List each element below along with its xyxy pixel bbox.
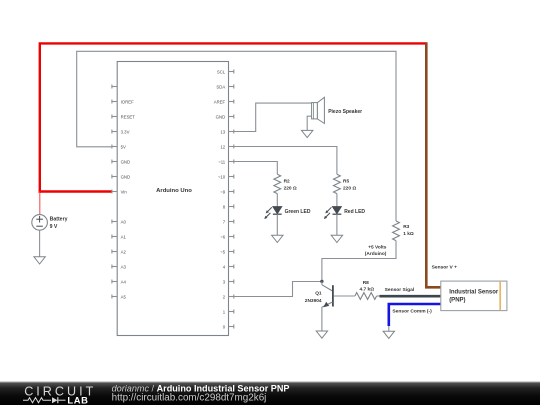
wire brown Sensor V+ bbox=[426, 42, 441, 287]
ground red LED bbox=[331, 235, 342, 242]
pin GND (left) bbox=[112, 161, 118, 163]
pin GND (left) bbox=[112, 176, 118, 178]
svg-text:Sensor Comm (-): Sensor Comm (-) bbox=[392, 309, 432, 315]
svg-text:R3: R3 bbox=[403, 224, 409, 230]
pin 7 (right) bbox=[229, 221, 235, 223]
pin A0 (left) bbox=[112, 221, 118, 223]
svg-text:5V: 5V bbox=[121, 144, 126, 149]
svg-text:Vin: Vin bbox=[121, 189, 128, 194]
wire R8 right lead bbox=[377, 295, 380, 297]
svg-text:GND: GND bbox=[121, 159, 131, 164]
pin ~11 (right) bbox=[229, 161, 235, 163]
svg-text:A4: A4 bbox=[121, 279, 127, 284]
pin A2 (left) bbox=[112, 251, 118, 253]
pin 5V (left) bbox=[112, 146, 118, 148]
wire pin 12 to R5 bbox=[234, 147, 337, 175]
node junction dot bbox=[320, 280, 323, 283]
svg-text:Red LED: Red LED bbox=[344, 209, 365, 215]
svg-text:~5: ~5 bbox=[220, 249, 226, 254]
pin A1 (left) bbox=[112, 236, 118, 238]
pin 1 (right) bbox=[229, 311, 235, 313]
svg-text:RESET: RESET bbox=[121, 114, 136, 119]
wire speaker to ground bbox=[307, 116, 311, 130]
svg-text:Sensor Sigal: Sensor Sigal bbox=[385, 287, 415, 293]
svg-text:R2: R2 bbox=[284, 178, 290, 184]
wire red battery stub bbox=[39, 192, 41, 215]
pin 2 (right) bbox=[229, 296, 235, 298]
svg-text:R5: R5 bbox=[343, 178, 349, 184]
resistor R3 1k bbox=[393, 221, 400, 241]
svg-text:2N3904: 2N3904 bbox=[305, 298, 322, 304]
wire pin 13 to speaker bbox=[234, 103, 312, 131]
svg-text:A2: A2 bbox=[121, 249, 127, 254]
pin ~6 (right) bbox=[229, 236, 235, 238]
pin 8 (right) bbox=[229, 206, 235, 208]
resistor R5 220 bbox=[334, 174, 341, 193]
pin A3 (left) bbox=[112, 266, 118, 268]
Arduino Uno U1 bbox=[117, 62, 228, 336]
ground sensor comm bbox=[383, 331, 394, 338]
svg-text:IOREF: IOREF bbox=[121, 99, 135, 104]
speaker SP1 Piezo bbox=[312, 103, 318, 119]
pin A4 (left) bbox=[112, 281, 118, 283]
svg-text:(Arduino): (Arduino) bbox=[365, 251, 387, 257]
svg-text:A0: A0 bbox=[121, 219, 127, 224]
pin Vin (left) bbox=[112, 191, 118, 193]
wire R5 to red LED bbox=[336, 194, 338, 207]
pin A5 (left) bbox=[112, 296, 118, 298]
ground green LED bbox=[272, 235, 283, 242]
pin 3 (right) bbox=[229, 281, 235, 283]
pin ~5 (right) bbox=[229, 251, 235, 253]
svg-text:GND: GND bbox=[121, 174, 131, 179]
pin AREF (right) bbox=[229, 101, 235, 103]
svg-text:A5: A5 bbox=[121, 294, 127, 299]
pin 4 (right) bbox=[229, 266, 235, 268]
svg-text:~9: ~9 bbox=[220, 189, 226, 194]
pin GND (right) bbox=[229, 116, 235, 118]
wire Sensor Sigal (dark) bbox=[380, 295, 441, 298]
svg-text:A3: A3 bbox=[121, 264, 127, 269]
wire battery- bbox=[39, 230, 41, 257]
svg-text:4.7 kΩ: 4.7 kΩ bbox=[360, 287, 375, 293]
svg-text:A1: A1 bbox=[121, 234, 127, 239]
svg-text:3.3V: 3.3V bbox=[121, 129, 130, 134]
svg-text:Battery: Battery bbox=[50, 217, 68, 223]
wire red battery+ to top rail bbox=[40, 43, 427, 193]
resistor R8 4.7k bbox=[355, 293, 377, 300]
wire R3 bottom to collector node bbox=[322, 241, 396, 282]
ground Q1 emitter bbox=[316, 331, 327, 338]
svg-text:12: 12 bbox=[220, 144, 225, 149]
svg-text:SCL: SCL bbox=[217, 69, 226, 74]
resistor R2 220 bbox=[274, 174, 281, 193]
pin IOREF (left) bbox=[112, 101, 118, 103]
wire red to Vin bbox=[39, 190, 112, 192]
svg-text:GND: GND bbox=[216, 114, 226, 119]
svg-text:1 kΩ: 1 kΩ bbox=[403, 231, 414, 237]
wire red LED to ground bbox=[336, 214, 338, 235]
LED D2 Red bbox=[333, 207, 342, 214]
logo doodle wire bbox=[23, 398, 51, 403]
pin ~9 (right) bbox=[229, 191, 235, 193]
svg-text:Industrial Sensor: Industrial Sensor bbox=[449, 290, 499, 296]
pin SCL (right) bbox=[229, 71, 235, 73]
pin 12 (right) bbox=[229, 146, 235, 148]
svg-text:~11: ~11 bbox=[218, 159, 226, 164]
pin 13 (right) bbox=[229, 131, 235, 133]
svg-text:AREF: AREF bbox=[214, 99, 226, 104]
wire 5V pin to R3 top (+5V net) bbox=[77, 51, 396, 221]
svg-text:http://circuitlab.com/c298dt7m: http://circuitlab.com/c298dt7mg2k6j bbox=[112, 392, 267, 403]
svg-text:Sensor V +: Sensor V + bbox=[432, 264, 458, 270]
wire green LED to ground bbox=[276, 214, 278, 235]
ground speaker bbox=[302, 130, 313, 137]
svg-text:220 Ω: 220 Ω bbox=[343, 186, 356, 192]
pin 0 (right) bbox=[229, 326, 235, 328]
svg-text:~10: ~10 bbox=[218, 174, 226, 179]
svg-text:+5 Volts: +5 Volts bbox=[368, 245, 387, 251]
pin NC (left) bbox=[112, 86, 118, 88]
svg-text:LAB: LAB bbox=[67, 394, 88, 405]
pin RESET (left) bbox=[112, 116, 118, 118]
wire pin 11 to R2 bbox=[234, 162, 277, 175]
wire Sensor Comm (blue) bbox=[389, 304, 441, 326]
svg-text:~6: ~6 bbox=[220, 234, 226, 239]
Industrial Sensor (PNP) box bbox=[441, 281, 507, 311]
svg-text:220 Ω: 220 Ω bbox=[284, 186, 297, 192]
svg-text:Green LED: Green LED bbox=[285, 209, 311, 215]
wire emitter to ground bbox=[321, 307, 323, 331]
pin 3.3V (left) bbox=[112, 131, 118, 133]
wire Q1 base to R8 bbox=[334, 295, 355, 297]
pin ~10 (right) bbox=[229, 176, 235, 178]
svg-text:9 V: 9 V bbox=[50, 224, 58, 230]
svg-text:Piezo Speaker: Piezo Speaker bbox=[328, 109, 362, 115]
svg-text:13: 13 bbox=[220, 129, 225, 134]
svg-text:R8: R8 bbox=[363, 280, 369, 286]
svg-text:Arduino Uno: Arduino Uno bbox=[156, 188, 192, 194]
LED D1 Green bbox=[273, 207, 282, 214]
svg-text:(PNP): (PNP) bbox=[449, 298, 465, 304]
transistor Q1 2N3904 bbox=[321, 281, 323, 284]
pin SDA (right) bbox=[229, 86, 235, 88]
ground battery bbox=[34, 257, 45, 264]
wire R2 to green LED bbox=[276, 194, 278, 207]
battery V1 9V bbox=[32, 215, 48, 231]
svg-text:Q1: Q1 bbox=[315, 291, 322, 297]
wire pin 2 to collector node bbox=[234, 282, 322, 297]
svg-text:SDA: SDA bbox=[216, 84, 225, 89]
